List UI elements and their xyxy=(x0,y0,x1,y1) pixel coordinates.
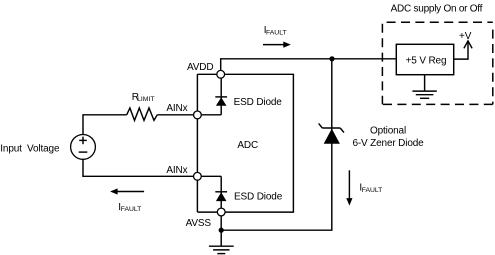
svg-text:FAULT: FAULT xyxy=(266,29,287,36)
svg-text:AINx: AINx xyxy=(166,103,187,114)
svg-text:AINx: AINx xyxy=(166,165,187,176)
svg-text:+5 V Reg: +5 V Reg xyxy=(406,56,447,67)
svg-text:AVSS: AVSS xyxy=(186,218,212,229)
svg-text:6-V Zener Diode: 6-V Zener Diode xyxy=(352,138,424,149)
svg-text:LIMIT: LIMIT xyxy=(137,96,154,103)
svg-text:ADC supply On or Off: ADC supply On or Off xyxy=(391,3,483,14)
svg-text:ESD Diode: ESD Diode xyxy=(234,97,283,108)
svg-text:+V: +V xyxy=(459,31,472,42)
svg-text:ADC: ADC xyxy=(237,140,258,151)
svg-text:ESD Diode: ESD Diode xyxy=(234,191,283,202)
svg-text:Optional: Optional xyxy=(370,126,406,137)
svg-text:Input Voltage: Input Voltage xyxy=(0,144,60,155)
svg-text:FAULT: FAULT xyxy=(362,187,383,194)
svg-text:FAULT: FAULT xyxy=(121,206,142,213)
svg-text:AVDD: AVDD xyxy=(187,62,213,73)
